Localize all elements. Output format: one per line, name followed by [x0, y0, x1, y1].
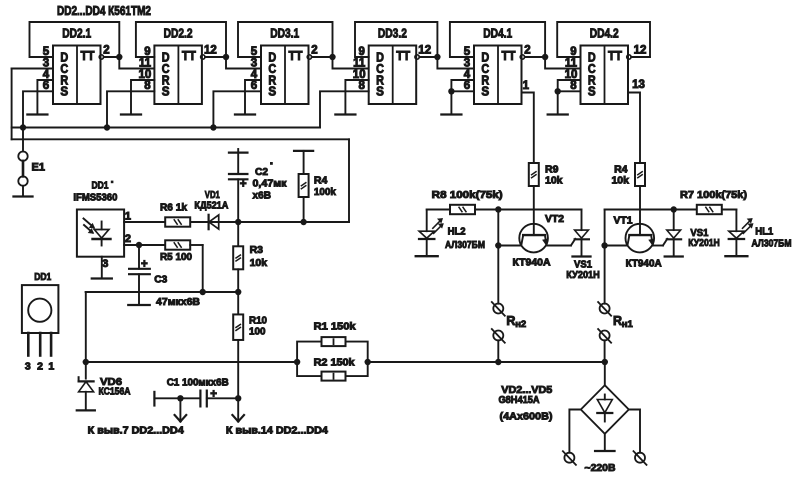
- svg-text:DD2...DD4 К561ТМ2: DD2...DD4 К561ТМ2: [57, 4, 151, 18]
- svg-text:9: 9: [358, 46, 364, 58]
- svg-text:10: 10: [353, 69, 366, 81]
- svg-text:8: 8: [144, 80, 151, 92]
- svg-text:КТ940А: КТ940А: [626, 258, 662, 270]
- svg-text:C3: C3: [154, 274, 167, 286]
- svg-text:100k: 100k: [314, 186, 336, 198]
- svg-text:DD3.1: DD3.1: [270, 26, 299, 41]
- svg-text:2: 2: [103, 45, 109, 57]
- svg-text:1: 1: [48, 361, 54, 373]
- svg-text:R7 100k(75k): R7 100k(75k): [680, 189, 747, 201]
- svg-text:R5 100: R5 100: [160, 251, 192, 263]
- svg-text:TT: TT: [608, 49, 622, 63]
- svg-text:9: 9: [144, 46, 150, 58]
- svg-text:6: 6: [43, 80, 49, 92]
- svg-text:10: 10: [565, 69, 578, 81]
- svg-text:2: 2: [37, 361, 43, 373]
- svg-text:КУ201Н: КУ201Н: [566, 269, 600, 281]
- svg-text:DD4.2: DD4.2: [590, 26, 619, 41]
- svg-text:10k: 10k: [250, 257, 268, 269]
- svg-text:S: S: [162, 84, 170, 99]
- svg-text:HL2: HL2: [448, 226, 466, 238]
- svg-text:R8 100k(75k): R8 100k(75k): [432, 189, 503, 201]
- svg-text:DD4.1: DD4.1: [483, 26, 512, 41]
- svg-text:11: 11: [139, 57, 152, 69]
- svg-text:HL1: HL1: [755, 226, 773, 238]
- svg-text:9: 9: [570, 46, 576, 58]
- svg-text:VT2: VT2: [545, 213, 564, 225]
- svg-text:2: 2: [311, 45, 317, 57]
- svg-text:10k: 10k: [611, 175, 629, 187]
- svg-text:10: 10: [139, 69, 152, 81]
- svg-text:3: 3: [25, 361, 31, 373]
- svg-text:S: S: [268, 84, 276, 99]
- svg-text:C2: C2: [255, 166, 268, 178]
- svg-text:КУ201Н: КУ201Н: [688, 237, 720, 249]
- svg-text:4: 4: [251, 69, 258, 81]
- svg-text:S: S: [481, 84, 489, 99]
- svg-text:12: 12: [204, 45, 217, 57]
- svg-text:TT: TT: [182, 49, 196, 63]
- svg-text:6: 6: [251, 80, 257, 92]
- svg-text:R4: R4: [614, 163, 628, 175]
- svg-text:12: 12: [634, 45, 647, 57]
- svg-text:2: 2: [524, 45, 530, 57]
- svg-text:4: 4: [43, 69, 50, 81]
- svg-text:х6В: х6В: [253, 189, 272, 201]
- svg-text:3: 3: [464, 57, 470, 69]
- svg-text:8: 8: [570, 80, 577, 92]
- svg-text:R: R: [613, 314, 622, 328]
- svg-text:TT: TT: [396, 49, 410, 63]
- svg-text:8: 8: [358, 80, 365, 92]
- svg-text:КТ940А: КТ940А: [513, 256, 551, 268]
- svg-text:5: 5: [43, 46, 50, 58]
- svg-text:1: 1: [125, 210, 131, 222]
- svg-text:R: R: [506, 314, 515, 328]
- svg-text:E1: E1: [32, 162, 45, 174]
- svg-text:VT1: VT1: [614, 215, 633, 227]
- svg-text:R10: R10: [249, 314, 267, 326]
- svg-text:DD1: DD1: [34, 271, 51, 283]
- svg-text:DD2.1: DD2.1: [62, 26, 91, 41]
- svg-text:КД521А: КД521А: [194, 200, 228, 212]
- svg-text:47мкх6В: 47мкх6В: [156, 296, 200, 308]
- svg-text:АЛ307БМ: АЛ307БМ: [445, 239, 485, 251]
- svg-text:11: 11: [353, 57, 366, 69]
- svg-text:13: 13: [632, 79, 645, 91]
- svg-text:TT: TT: [502, 49, 516, 63]
- svg-text:+: +: [240, 179, 247, 191]
- svg-text:R4: R4: [314, 175, 328, 187]
- svg-text:12: 12: [418, 45, 431, 57]
- svg-text:0,47мк: 0,47мк: [253, 178, 288, 190]
- svg-text:R1 150k: R1 150k: [314, 320, 356, 332]
- svg-text:3: 3: [251, 57, 257, 69]
- svg-text:R9: R9: [545, 163, 559, 175]
- svg-text:DD3.2: DD3.2: [378, 26, 407, 41]
- svg-text:R3: R3: [250, 244, 264, 256]
- svg-text:~220В: ~220В: [585, 462, 616, 474]
- svg-text:TT: TT: [289, 49, 303, 63]
- svg-text:S: S: [588, 84, 596, 99]
- svg-text:R2 150k: R2 150k: [314, 357, 355, 369]
- svg-text:3: 3: [102, 258, 108, 270]
- svg-text:TT: TT: [81, 49, 95, 63]
- svg-text:6: 6: [464, 80, 470, 92]
- svg-text:5: 5: [251, 46, 258, 58]
- svg-text:2: 2: [125, 233, 131, 245]
- svg-text:АЛ307БМ: АЛ307БМ: [752, 237, 792, 249]
- svg-text:S: S: [60, 84, 68, 99]
- svg-text:К выв.7 DD2...DD4: К выв.7 DD2...DD4: [88, 425, 184, 437]
- svg-text:11: 11: [565, 57, 578, 69]
- svg-text:10k: 10k: [545, 175, 563, 187]
- svg-text:(4Ах600В): (4Ах600В): [500, 411, 553, 423]
- svg-text:н2: н2: [515, 319, 526, 330]
- svg-text:DD1: DD1: [92, 180, 109, 192]
- svg-text:G8H415A: G8H415A: [499, 394, 540, 406]
- svg-text:3: 3: [43, 57, 49, 69]
- svg-text:КС156А: КС156А: [99, 385, 131, 397]
- svg-text:К выв.14 DD2...DD4: К выв.14 DD2...DD4: [226, 425, 328, 437]
- svg-text:5: 5: [464, 46, 471, 58]
- svg-text:S: S: [376, 84, 384, 99]
- svg-text:C1 100мкх6В: C1 100мкх6В: [167, 376, 229, 388]
- svg-text:1: 1: [523, 80, 530, 92]
- svg-text:IFMS5360: IFMS5360: [73, 191, 117, 203]
- svg-text:+: +: [141, 258, 148, 270]
- svg-text:100: 100: [249, 326, 266, 338]
- svg-text:н1: н1: [622, 319, 634, 330]
- svg-text:4: 4: [464, 69, 471, 81]
- svg-text:R6 1k: R6 1k: [160, 202, 187, 214]
- svg-text:DD2.2: DD2.2: [164, 26, 193, 41]
